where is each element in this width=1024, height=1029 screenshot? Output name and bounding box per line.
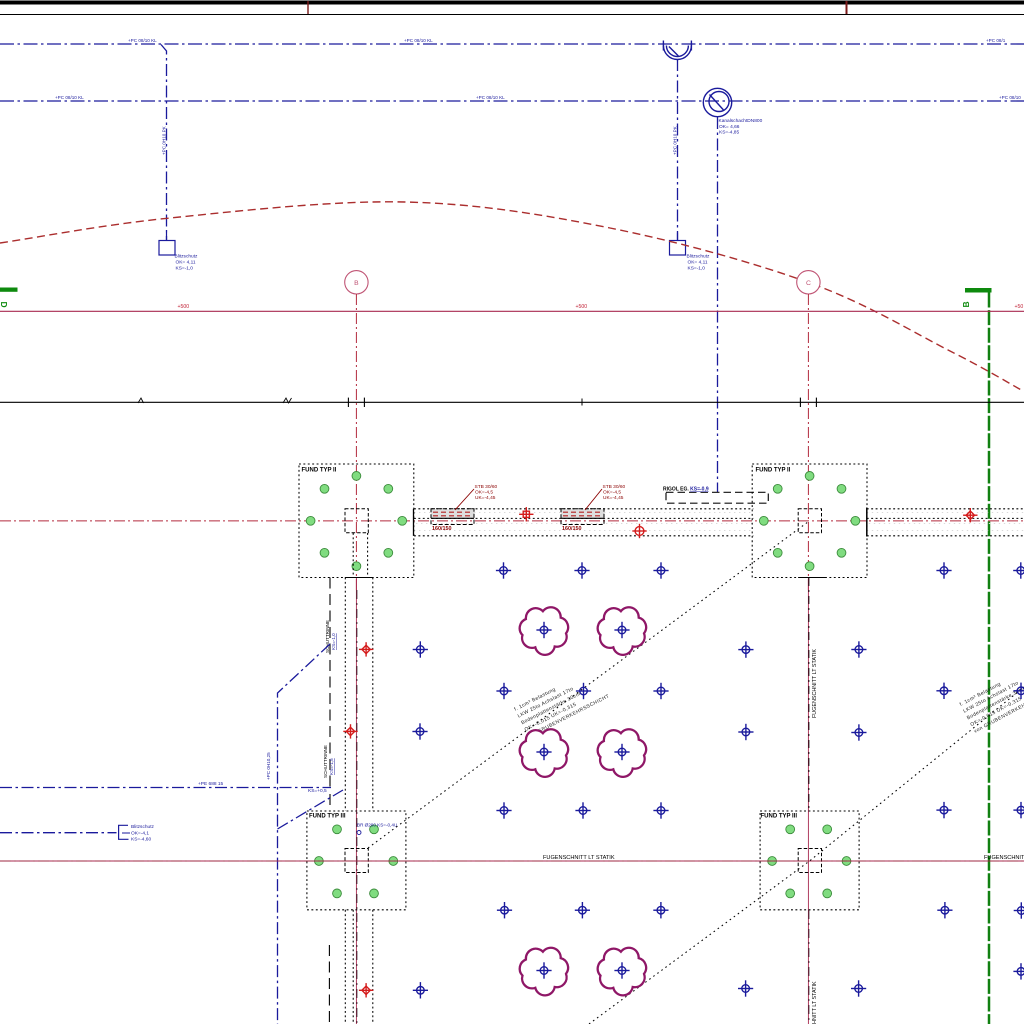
band light hatch speckle — [414, 513, 753, 531]
blue drain diagonal to pad III — [278, 790, 344, 829]
drop pipe 3 (blue dash-dot vertical x=717) — [717, 117, 719, 492]
survey cross 19 — [653, 802, 668, 818]
svg-text:KanalschachtDN800: KanalschachtDN800 — [719, 118, 763, 124]
dimension tick x=348.4 — [347, 398, 349, 407]
svg-text:+PC 0H10 PK: +PC 0H10 PK — [162, 125, 167, 155]
tree 5 — [520, 948, 568, 996]
svg-text:Blitzschutz: Blitzschutz — [175, 254, 199, 260]
foundation pad FUND TYP III left — [307, 811, 406, 910]
survey cross 15 — [738, 724, 753, 740]
survey cross 24 — [653, 902, 668, 918]
Blitzschutz text bottom-left — [131, 824, 155, 843]
survey cross 2 — [574, 562, 589, 578]
survey cross 22 — [497, 902, 512, 918]
svg-text:FUND TYP III: FUND TYP III — [761, 814, 798, 820]
survey cross 1 — [496, 562, 511, 578]
manhole square 2 (Blitzschutz) — [670, 233, 686, 256]
diagonal dotted line B — [589, 687, 1024, 1024]
svg-text:KS=-4,85: KS=-4,85 — [719, 130, 739, 136]
green dashed section line vertical x=989 — [988, 293, 991, 1025]
survey cross 14 — [412, 723, 427, 739]
rotated note block B — [959, 660, 1024, 735]
svg-text:+PC 0H10,25: +PC 0H10,25 — [266, 752, 271, 780]
drop pipe 1 (blue dash-dot vertical x=166) — [161, 45, 167, 241]
red dashed road arc — [0, 202, 1023, 391]
svg-text:FUND TYP II: FUND TYP II — [302, 468, 337, 474]
survey cross 25 — [937, 902, 952, 918]
survey cross 10 — [576, 683, 591, 699]
survey cross 6 — [413, 641, 428, 657]
band end solid vertical x=866.8 — [866, 508, 868, 537]
survey cross 3 — [653, 562, 668, 578]
svg-text:B: B — [354, 280, 359, 287]
drop pipe 2 (blue dash-dot vertical x=677) — [677, 59, 679, 241]
red survey marker on band (diamond) — [963, 508, 977, 522]
svg-text:+500: +500 — [576, 304, 588, 310]
axis line y=521 red dash-dot horizontal — [0, 520, 1024, 522]
svg-text:UK=-4,45: UK=-4,45 — [603, 495, 624, 501]
sleeve leader + STB text x=431 — [455, 489, 474, 510]
sheet border second line — [0, 14, 1024, 16]
svg-text:+PC 08/10 KL: +PC 08/10 KL — [404, 38, 433, 43]
grid bubble B — [345, 271, 368, 294]
svg-text:KS=-1,5: KS=-1,5 — [329, 758, 334, 775]
svg-text:BR Ø200 KS=-0,4U: BR Ø200 KS=-0,4U — [357, 823, 397, 828]
svg-text:FUGENSCHNITT L: FUGENSCHNITT L — [984, 855, 1024, 861]
survey cross 30 — [1013, 963, 1024, 979]
blue drain polyline upper (RW) — [278, 644, 331, 1024]
axis line y=861 crimson solid — [0, 860, 1024, 862]
strip foundation band dotted lines — [867, 509, 1024, 536]
dimension tick x=800.4 — [799, 398, 801, 407]
red survey marker on band (circle) — [632, 524, 646, 538]
foundation pad FUND TYP II left — [299, 464, 414, 578]
survey cross 29 — [851, 980, 866, 996]
band light hatch speckle — [867, 513, 1024, 531]
survey cross 28 — [738, 980, 753, 996]
Kanalschacht text — [719, 118, 763, 136]
sewer line 2 (blue dash-dot horizontal y=101) — [0, 100, 1024, 102]
Blitzschutz text 2 — [687, 254, 711, 272]
survey cross 13 — [1013, 683, 1024, 699]
svg-text:UK=-4,45: UK=-4,45 — [475, 495, 496, 501]
tree 4 — [598, 729, 646, 777]
tree 1 — [520, 607, 568, 655]
sleeve block x=561 — [561, 509, 604, 525]
svg-text:OK=-4,5: OK=-4,5 — [603, 490, 621, 496]
blue horizontal drain y=787 — [0, 787, 331, 789]
tree 2 — [598, 607, 646, 655]
survey cross 8 — [851, 641, 866, 657]
zigzag mark x=141 — [138, 398, 144, 403]
svg-text:KS=-1,0: KS=-1,0 — [688, 266, 706, 272]
svg-text:+PC 08/1: +PC 08/1 — [986, 38, 1006, 43]
red survey marker (350.5,731.4) — [343, 724, 357, 738]
survey cross 26 — [1014, 902, 1024, 918]
zigzag mark x=287 — [283, 398, 292, 403]
sewer line 1 (blue dash-dot horizontal y=44) — [0, 43, 1024, 45]
strip foundation band dotted lines — [414, 509, 753, 536]
blue horizontal drain y=832.7 — [0, 832, 117, 834]
manhole symbol 2 (Kanalschacht) — [703, 88, 731, 116]
svg-text:HNITT LT STATIK: HNITT LT STATIK — [812, 981, 818, 1024]
red survey marker on band (square) — [519, 507, 533, 521]
svg-text:KS=+0,5: KS=+0,5 — [308, 788, 327, 794]
survey cross 23 — [575, 902, 590, 918]
red survey marker (366.1,990.3) — [359, 983, 373, 997]
survey cross 5 — [1013, 562, 1024, 578]
svg-text:OK= 4,11: OK= 4,11 — [688, 260, 708, 266]
black dash overlay on axis C between pads — [808, 578, 810, 810]
svg-text:+PC 0H10 PK: +PC 0H10 PK — [673, 125, 678, 155]
svg-text:B: B — [961, 301, 971, 307]
svg-text:160/150: 160/150 — [562, 526, 582, 532]
border tick x=308 — [307, 1, 309, 14]
grid axis B vertical lower crimson — [355, 577, 357, 1024]
svg-text:160/150: 160/150 — [432, 526, 452, 532]
svg-text:KS=-1,0: KS=-1,0 — [176, 266, 194, 272]
svg-text:+50: +50 — [1015, 304, 1024, 310]
foundation pad FUND TYP II right — [752, 464, 867, 578]
red survey marker (366.1,649.4) — [359, 642, 373, 656]
svg-text:RIGOL EG. KS=-0,9: RIGOL EG. KS=-0,9 — [663, 487, 709, 493]
svg-text:+PC 08/10: +PC 08/10 — [999, 95, 1021, 100]
svg-text:C: C — [806, 280, 811, 287]
diagonal dotted line A — [368, 521, 810, 848]
svg-text:SCHUTTRINNE: SCHUTTRINNE — [323, 745, 328, 778]
tick mark x=582 — [581, 399, 583, 406]
svg-text:OK= 4,66: OK= 4,66 — [719, 124, 740, 130]
sleeve block x=431 — [431, 509, 474, 525]
slab edge line y=402 — [0, 401, 1024, 403]
survey cross 20 — [936, 802, 951, 818]
svg-text:+500: +500 — [178, 304, 190, 310]
survey cross 4 — [936, 562, 951, 578]
dimension tick x=816.4 — [815, 398, 817, 407]
rotated note block A — [513, 666, 610, 740]
Rigole dashed rectangle — [666, 492, 768, 503]
border tick x=846 — [846, 1, 848, 14]
green section bar left — [0, 288, 18, 292]
Blitzschutz text 1 — [175, 254, 199, 272]
crimson datum line y=311 — [0, 310, 1024, 312]
grid bubble C — [797, 271, 820, 294]
grid axis B vertical dash-dot — [355, 294, 357, 590]
tree 6 — [598, 948, 646, 996]
svg-text:Blitzschutz: Blitzschutz — [131, 824, 155, 830]
band end solid vertical x=413.5 — [413, 509, 415, 536]
dimension tick x=364.4 — [363, 398, 365, 407]
survey cross 7 — [738, 641, 753, 657]
survey cross 12 — [936, 683, 951, 699]
svg-text:KS=-4,60: KS=-4,60 — [131, 837, 151, 843]
survey cross 21 — [1013, 802, 1024, 818]
svg-text:FUND TYP III: FUND TYP III — [309, 814, 346, 820]
svg-text:Blitzschutz: Blitzschutz — [687, 254, 711, 260]
svg-text:STB 30/60: STB 30/60 — [475, 484, 498, 490]
grid axis C vertical lower crimson — [807, 577, 809, 1024]
sheet border top thick line — [0, 1, 1024, 5]
svg-text:+PC 08/10 KL: +PC 08/10 KL — [476, 95, 505, 100]
Blitzschutz bracket bottom-left — [119, 825, 129, 839]
manhole square 1 (Blitzschutz) — [159, 233, 175, 256]
svg-text:KS=-1,0: KS=-1,0 — [331, 633, 336, 650]
svg-text:+PC 08/10 KL: +PC 08/10 KL — [55, 95, 84, 100]
svg-text:OK=-4,1: OK=-4,1 — [131, 831, 149, 837]
survey cross 27 — [413, 982, 428, 998]
svg-text:STB 30/60: STB 30/60 — [603, 484, 626, 490]
svg-text:+PC 08/10 KL: +PC 08/10 KL — [128, 38, 157, 43]
manhole symbol 1 on sewer line 1 — [663, 41, 691, 60]
svg-text:FUND TYP II: FUND TYP II — [756, 468, 791, 474]
svg-text:OK=-4,5: OK=-4,5 — [475, 490, 493, 496]
svg-text:OK= 4,11: OK= 4,11 — [176, 260, 196, 266]
tree 3 — [520, 729, 568, 777]
foundation pad FUND TYP III right — [760, 811, 859, 910]
survey cross 17 — [496, 802, 511, 818]
svg-text:FUGENSCHNITT LT STATIK: FUGENSCHNITT LT STATIK — [812, 649, 818, 718]
svg-text:FUGENSCHNITT LT STATIK: FUGENSCHNITT LT STATIK — [543, 855, 615, 861]
svg-text:+PE 688 15: +PE 688 15 — [198, 781, 224, 787]
survey cross 9 — [496, 683, 511, 699]
survey cross 18 — [575, 802, 590, 818]
sleeve leader + STB text x=561 — [585, 489, 602, 510]
column strip dotted verticals below pad II left — [345, 533, 373, 1024]
black long-dash line x=330 — [328, 578, 331, 1025]
svg-text:D: D — [0, 302, 9, 308]
survey cross 16 — [851, 724, 866, 740]
green section bar right — [965, 288, 992, 293]
survey cross 11 — [653, 683, 668, 699]
grid axis C vertical dash-dot — [807, 294, 809, 590]
